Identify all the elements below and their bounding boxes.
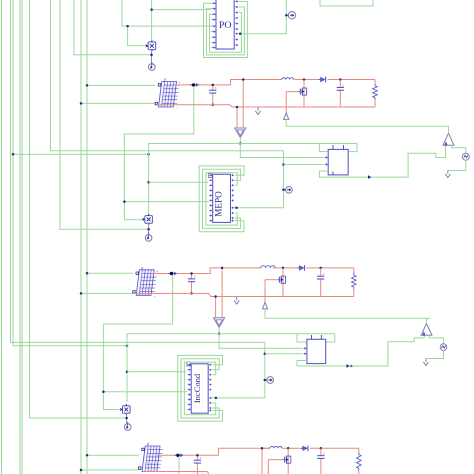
PO wrap-around wire loop 1 (204, 2, 248, 58)
wire V to MEPO pin (149, 181, 208, 183)
wire vsense tap 3 (261, 448, 263, 474)
MEPO right pins (232, 174, 234, 176)
wire temperature to PV3 (81, 469, 139, 471)
svg-text:c: c (323, 450, 325, 455)
capacitor C2a input (191, 274, 193, 279)
MOSFET Q1 (303, 80, 305, 108)
subcircuit IncCond box (191, 364, 208, 413)
svg-text:c: c (194, 274, 196, 279)
wire bus-11 PV irradiance feed (86, 0, 88, 474)
wire bus-3 tap to V2 net (13, 0, 127, 346)
wire PV2 positive rail (151, 268, 261, 274)
node out to block B2 input2 (264, 352, 267, 355)
wire CMP2 output (426, 318, 428, 323)
inductor L2 (255, 267, 261, 269)
wire V1 to block B1 input1 (240, 144, 323, 158)
wire MEPO output net (232, 151, 284, 208)
carrier source SRC1 (462, 153, 469, 160)
node probe P2 junction (282, 189, 285, 192)
node irradiance tap 2 (86, 272, 89, 275)
wire M2 output node (148, 223, 150, 234)
wire L1 to MOSFET (294, 79, 321, 81)
comparator CMP1 (443, 133, 454, 145)
multiplier M3 (123, 406, 131, 414)
wire stray tap row1 (13, 153, 149, 155)
resistor R1 load (374, 80, 376, 84)
wire B1 output to comparator CMP1 (372, 145, 446, 177)
node Q2 drain (282, 267, 285, 270)
multiplier M2 (145, 216, 153, 224)
wire temperature to PV1 (81, 102, 155, 104)
wire irradiance to PV1 (87, 84, 155, 86)
node Q3 drain (287, 447, 290, 450)
node VS2 junction (218, 332, 221, 335)
diode D2 (299, 265, 304, 270)
wire L2 to Q2 (272, 267, 299, 269)
diode D1 (320, 77, 325, 82)
svg-text:MEPO: MEPO (214, 191, 224, 217)
svg-text:c: c (200, 455, 202, 460)
capacitor C1b output (339, 80, 341, 88)
PO right pins (235, 1, 237, 3)
inductor L3 (264, 447, 270, 449)
node B2 output branch (350, 365, 353, 368)
node temperature tap 2 (80, 292, 83, 295)
wire PV1 negative rail (157, 105, 375, 107)
node I to MEPO (123, 200, 126, 203)
node Q1 drain (303, 78, 306, 81)
MOSFET Q2 (282, 268, 284, 297)
voltage probe V2 (145, 235, 152, 242)
MEPO wrap loop 2 (203, 169, 241, 228)
probe P2 on MEPO output (286, 187, 293, 194)
MEPO wrap loop 1 (199, 166, 244, 232)
inductor L1 (276, 79, 282, 81)
voltage sensor VS1 (235, 128, 246, 138)
current sensor CS1 (190, 84, 196, 86)
wire IncCond output net (210, 342, 265, 398)
node I to IncCond (102, 391, 105, 394)
wire D1 to output (328, 79, 375, 81)
wire CMP1 output (448, 126, 450, 133)
svg-text:p: p (164, 77, 166, 82)
node vsense top 3 (261, 447, 264, 450)
voltage probe V1 (149, 64, 156, 71)
control block B1 (328, 149, 348, 175)
comparator CMP2 (421, 324, 432, 336)
wire CMP1 carrier input (452, 145, 466, 153)
wire L3 to Q3 (282, 447, 303, 449)
PO wrap-around wire loop 2 (207, 7, 245, 55)
wire bus-7 to MEPO output net (51, 0, 284, 151)
wire vsense taps (236, 107, 238, 128)
current sensor CS3 (175, 454, 181, 456)
node C3b top (320, 447, 323, 450)
capacitor C2b output (320, 268, 322, 276)
node V to IncCond pin (126, 371, 129, 374)
node V feed PO (150, 8, 153, 11)
ground G2b (425, 359, 427, 362)
node probe junction (285, 14, 288, 16)
wire CS1 signal down (124, 86, 193, 219)
wire temperature to PV2 (81, 292, 133, 294)
wire bus-14 V signal into multiplier U1 and PO (151, 0, 153, 42)
wire top U loop (320, 0, 373, 6)
wire B1 top-left leg (319, 144, 328, 152)
solar panel PV2 (136, 270, 154, 296)
subcircuit MEPO box (213, 174, 231, 222)
wire B2 top-left leg (297, 334, 307, 342)
node vsense top (242, 78, 245, 81)
wire gate signal G2 long (265, 309, 430, 318)
node C1a top (212, 84, 215, 87)
wire bus-8 to multiplier U2 output (60, 0, 149, 229)
wire B2 output to comparator CMP2 (350, 335, 424, 366)
probe P3 on IncCond output (267, 377, 274, 384)
wire to block B1 input2 (284, 164, 324, 166)
node vsense bottom (236, 106, 239, 109)
node bus-3 V2 tap (126, 345, 129, 348)
wire irradiance to PV2 (87, 272, 133, 274)
wire PV3 negative rail (143, 472, 209, 474)
wire Q1 gate (286, 91, 298, 93)
MOSFET Q3 (287, 448, 289, 474)
wire CS3 signal down (178, 457, 180, 474)
wire B2 output wrap (297, 361, 346, 367)
wire D2 to output (307, 267, 354, 269)
node probe P3 junction (264, 379, 267, 382)
svg-text:c: c (343, 82, 345, 87)
svg-text:p: p (141, 265, 143, 270)
node bus-12 branch (126, 25, 129, 28)
wire bus-5 (21, 0, 23, 474)
wire PO output to probe (239, 0, 286, 34)
wire bus-1 (1, 0, 3, 474)
wire PV1 positive rail (174, 80, 282, 85)
gate arrow A1 (284, 113, 289, 119)
wire irradiance to PV3 (87, 454, 139, 456)
wire CS2 signal down (103, 275, 172, 410)
wire bus-12 to PO input pin (122, 0, 211, 26)
IncCond wrap loop 3 (184, 362, 215, 415)
node C2b top (319, 267, 322, 270)
wire bus-6 to multiplier U3 output (30, 0, 127, 418)
wire SRC1 to ground (448, 160, 466, 170)
wire V2 net right to block B2 top (219, 334, 335, 342)
node C1b top (339, 78, 342, 81)
solar panel PV3 (142, 446, 160, 472)
wire PO pin feed (152, 9, 212, 11)
node irradiance tap (86, 84, 89, 87)
IncCond left pins (188, 364, 190, 366)
wire B1 output wrap (332, 172, 334, 175)
solar panel PV1 (159, 82, 177, 108)
capacitor C3a input (196, 455, 198, 460)
ground G2 (236, 297, 238, 300)
PO wrap-around wire loop 3 (210, 13, 242, 53)
node irradiance tap 3 (86, 454, 89, 457)
node IncCond output (215, 397, 218, 400)
gate arrow A2 (262, 303, 267, 309)
diode D3 (303, 446, 308, 451)
wire branch to multiplier U1 left input (128, 26, 149, 46)
resistor R3 load (358, 448, 360, 452)
MEPO wrap loop 3 (206, 173, 237, 226)
svg-text:IncCond: IncCond (192, 373, 202, 403)
node PO output junction (239, 32, 242, 35)
node M2 output (147, 228, 150, 231)
node M1 output (150, 54, 153, 57)
wire bus-10 PV temperature feed (80, 0, 82, 474)
wire VS1 output (239, 138, 241, 144)
wire M1 output node (151, 50, 153, 64)
wire vsense taps 2 (215, 297, 217, 318)
probe P1 on PO output (288, 12, 295, 19)
node C1a bottom (212, 104, 215, 107)
subcircuit PO box (216, 0, 234, 49)
ground G1b (447, 171, 449, 174)
multiplier M1 (148, 42, 156, 50)
wire D3 to output (310, 447, 359, 449)
wire VS2 output (218, 327, 220, 333)
wire gate signal G1 long (286, 119, 448, 126)
wire V1 net left to multiplier M2 (149, 144, 241, 216)
wire V2 to block B2 input1 (219, 334, 302, 349)
wire Q2 gate (265, 279, 277, 281)
resistor R2 load (353, 268, 355, 273)
svg-text:c: c (323, 271, 325, 276)
voltage probe V3 (124, 424, 131, 431)
node M3 output (125, 417, 128, 420)
MEPO left pins (209, 174, 211, 176)
wire SRC2 to ground (426, 350, 444, 358)
node V to MEPO pin (147, 181, 150, 184)
capacitor C1a input (212, 85, 214, 90)
wire V2 net left to multiplier M3 (127, 334, 219, 402)
wire bus-9 to multiplier U1 output (74, 0, 152, 55)
node temperature tap 3 (80, 469, 83, 472)
wire CMP2 carrier input (429, 335, 443, 344)
svg-text:PO: PO (219, 20, 232, 31)
ground G1 (257, 108, 259, 111)
node out to block B1 input2 (282, 163, 285, 166)
control block B2 (307, 339, 326, 363)
svg-text:p: p (147, 441, 149, 446)
wire PV2 negative rail (135, 293, 354, 296)
voltage sensor VS2 (214, 318, 225, 328)
carrier source SRC2 (440, 344, 447, 351)
IncCond wrap loop 1 (178, 355, 223, 421)
capacitor C3b output (320, 448, 322, 455)
wire bus-2 to IncCond output net (11, 0, 265, 342)
wire Q3 gate (268, 459, 282, 461)
wire I to MEPO pin (124, 201, 209, 203)
node MEPO output (235, 207, 238, 210)
wire V to IncCond pin (127, 371, 186, 373)
wire to block B2 input2 (265, 353, 303, 355)
node VS1 junction (239, 142, 242, 145)
IncCond right pins (209, 364, 211, 366)
wire PV3 positive rail (157, 448, 270, 455)
node stray tap (147, 153, 150, 156)
PO left pins (211, 2, 214, 4)
current sensor CS2 (168, 273, 174, 275)
svg-text:c: c (215, 85, 217, 90)
wire I to IncCond pin (103, 391, 187, 393)
node temperature tap (80, 102, 83, 105)
wire bus-4 (19, 0, 21, 474)
wire M3 output node (126, 413, 128, 423)
wire V1 net right to block B1 top (240, 144, 357, 152)
IncCond wrap loop 2 (181, 359, 219, 418)
